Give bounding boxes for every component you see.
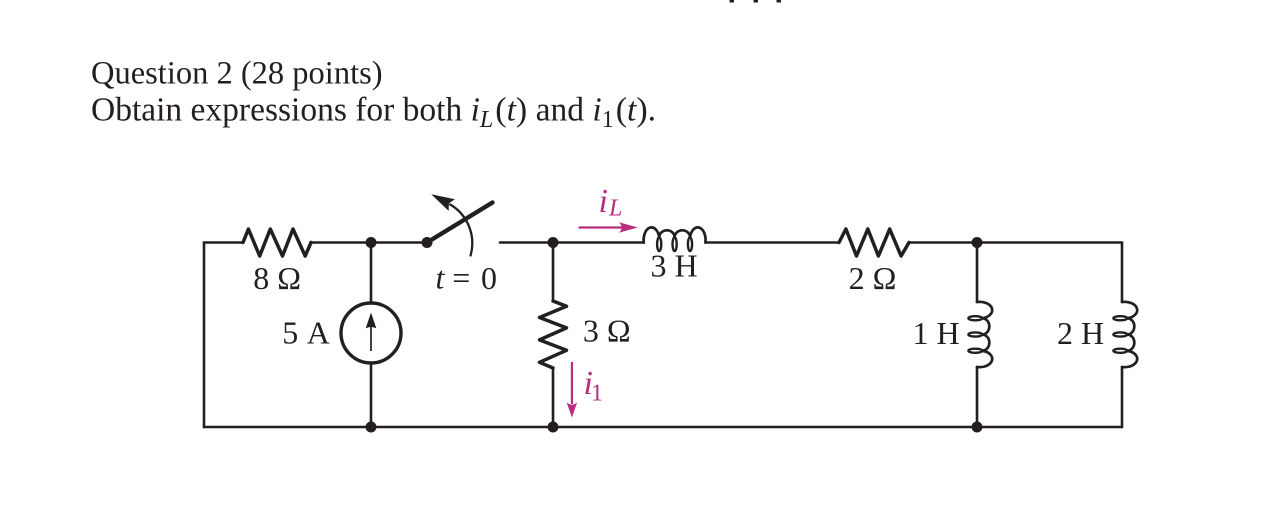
node bottom 5A branch — [366, 422, 377, 433]
inductor 3H loop 3 — [688, 237, 692, 251]
resistor 2ohm zigzag — [839, 229, 909, 256]
svg-text:3 H: 3 H — [650, 248, 697, 284]
svg-text:i: i — [599, 183, 608, 220]
wire 3ohm branch top — [552, 243, 555, 302]
inductor 3H coil — [644, 227, 706, 242]
wire bottom — [204, 426, 1122, 429]
wire 1H branch bottom — [976, 367, 979, 427]
svg-text:8 Ω: 8 Ω — [253, 260, 301, 296]
wire right vertical bottom — [1121, 367, 1124, 427]
descender mark 2 — [754, 0, 759, 3]
wire top-left stub — [204, 241, 243, 244]
svg-text:1 H: 1 H — [912, 315, 959, 351]
node top 1H branch — [972, 237, 983, 248]
node switch pivot — [422, 237, 433, 248]
wire resistor to switch — [311, 241, 427, 244]
inductor 1H loop 3 — [968, 349, 982, 353]
inductor 3H loop 1 — [657, 237, 661, 251]
svg-text:5: 5 — [282, 315, 298, 351]
inductor 1H loop 2 — [968, 332, 982, 336]
wire 2ohm to right corner — [909, 241, 1122, 244]
inductor 2H loop 1 — [1113, 316, 1127, 320]
switch arc — [450, 205, 472, 256]
wire 1H branch top — [976, 243, 979, 303]
inductor 2H coil — [1122, 302, 1137, 367]
svg-text:1: 1 — [591, 381, 603, 407]
node top 5A branch — [366, 237, 377, 248]
wire 5A branch bottom — [370, 363, 373, 427]
inductor 1H coil — [977, 302, 992, 367]
svg-text:Obtain expressions for both iL: Obtain expressions for both iL(t) and i1… — [91, 92, 656, 134]
descender mark 1 — [730, 0, 735, 3]
svg-text:3 Ω: 3 Ω — [583, 313, 631, 349]
wire 3H to 2ohm — [705, 241, 839, 244]
inductor 1H loop 1 — [968, 316, 982, 320]
descender mark 3 — [777, 0, 782, 3]
svg-text:2 H: 2 H — [1057, 315, 1104, 351]
svg-text:A: A — [307, 315, 330, 351]
wire left vertical — [203, 243, 206, 428]
inductor 2H loop 2 — [1113, 332, 1127, 336]
current arrow i1 head — [567, 402, 578, 417]
svg-text:=: = — [452, 260, 470, 296]
svg-text:0: 0 — [481, 260, 497, 296]
current arrow iL shaft — [579, 226, 623, 228]
resistor 3ohm zigzag — [540, 301, 567, 368]
node bottom 3ohm branch — [548, 422, 559, 433]
inductor 2H loop 3 — [1113, 349, 1127, 353]
wire right vertical top — [1121, 243, 1124, 303]
node bottom 1H branch — [972, 422, 983, 433]
wire 5A branch top — [370, 243, 373, 304]
current source 5A arrow shaft — [370, 321, 372, 351]
current arrow i1 shaft — [571, 362, 573, 404]
svg-text:t: t — [436, 260, 446, 296]
wire switch to 3ohm node — [500, 241, 553, 244]
node top 3ohm branch — [548, 237, 559, 248]
resistor 8ohm zigzag — [243, 229, 311, 256]
current source 5A arrowhead — [366, 313, 377, 329]
inductor 3H loop 2 — [673, 237, 677, 251]
switch blade — [427, 203, 493, 243]
wire 3ohm branch bottom — [552, 368, 555, 427]
current source 5A circle — [341, 303, 401, 363]
current arrow iL head — [619, 222, 638, 232]
switch arrowhead — [431, 194, 455, 211]
svg-text:2 Ω: 2 Ω — [849, 260, 897, 296]
svg-text:Question 2 (28 points): Question 2 (28 points) — [91, 56, 383, 92]
svg-text:L: L — [608, 196, 622, 222]
wire node to 3H coil — [553, 241, 644, 244]
